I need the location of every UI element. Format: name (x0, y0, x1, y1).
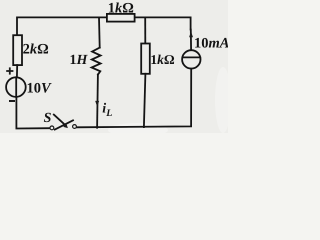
svg-text:1kΩ: 1kΩ (108, 0, 134, 16)
current source arrowhead (up) (189, 31, 193, 37)
wire: current source branch below circle to bottom corner (77, 69, 192, 128)
current arrow iL arrowhead (down) (95, 101, 99, 107)
scan smudge right edge (215, 67, 231, 133)
svg-text:10V: 10V (27, 80, 53, 96)
wire: left branch below source to bottom corner (16, 97, 50, 129)
scan smudge bottom right (108, 123, 168, 137)
svg-text:1kΩ: 1kΩ (150, 52, 175, 67)
current source I1 horizontal chord (182, 56, 200, 58)
wire: current source branch above circle (190, 30, 192, 51)
voltage source V1 circle 10V (6, 77, 26, 97)
resistor R3 1kohm vertical box (middle) (141, 44, 150, 74)
switch S lower crossing line (55, 120, 73, 129)
switch S arrowhead (63, 123, 68, 128)
resistor R2 2kohm vertical box (left) (13, 35, 22, 65)
resistor R1 1kohm horizontal box (top) (107, 14, 135, 22)
switch S left terminal circle (50, 126, 54, 130)
voltage source V1 internal vertical line (15, 77, 17, 97)
paper background (0, 0, 228, 133)
svg-text:1H: 1H (70, 53, 89, 68)
current source I1 circle 10mA (182, 50, 200, 68)
wire: top left horizontal (corner to top resistor) (17, 17, 107, 35)
plus sign of voltage source (6, 67, 13, 74)
wire: inductor branch top drop (98, 17, 101, 47)
wire: inductor branch bottom (96, 75, 99, 128)
switch S right terminal circle (73, 125, 77, 129)
wire: left branch between 2k box and source (16, 65, 18, 77)
switch S blade with arrow line (54, 115, 66, 126)
svg-text:10mA: 10mA (194, 35, 228, 51)
wire: middle branch bottom (144, 74, 146, 127)
wire: middle resistor branch top drop (144, 17, 146, 43)
svg-text:2kΩ: 2kΩ (23, 41, 49, 57)
wire: top right horizontal (top resistor to current source corner) (135, 17, 191, 29)
svg-text:S: S (44, 111, 52, 126)
inductor L1 zigzag (92, 48, 101, 75)
minus sign of voltage source (9, 100, 15, 102)
